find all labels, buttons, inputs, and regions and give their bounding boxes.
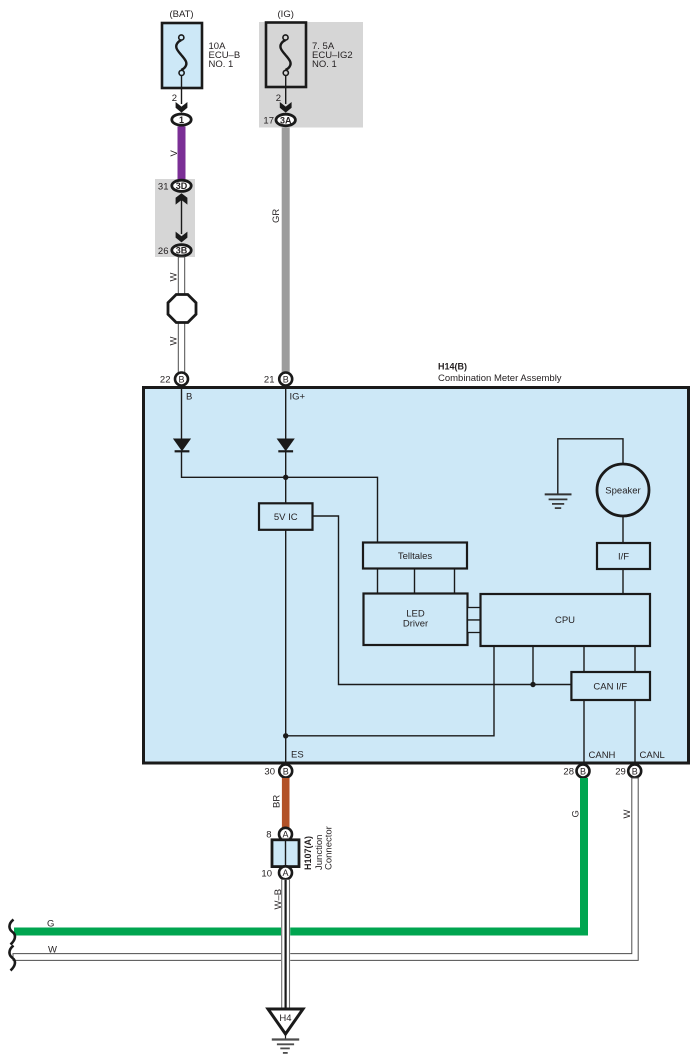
connector terminal 3D — [172, 180, 191, 191]
junction dot — [283, 475, 288, 480]
pin 30 terminal B — [279, 765, 292, 778]
wire between arrows — [181, 200, 183, 234]
svg-text:NO. 1: NO. 1 — [209, 59, 234, 70]
svg-text:CPU: CPU — [555, 615, 575, 626]
svg-text:I/F: I/F — [618, 552, 629, 563]
svg-text:B: B — [178, 374, 184, 384]
wire W (white) pin 29 to left edge — [13, 778, 638, 960]
CPU block — [481, 594, 651, 646]
pin 10 terminal A — [279, 866, 292, 879]
arrow down (3B) — [176, 232, 188, 243]
wire CANL — [634, 700, 636, 763]
wire CPU to junction — [532, 646, 534, 685]
svg-text:Connector: Connector — [324, 826, 335, 870]
fuse F1 (BAT) 10A ECU-B NO.1 — [162, 9, 240, 88]
wire CPU to ES — [286, 646, 494, 736]
svg-text:17: 17 — [263, 116, 274, 127]
svg-text:A: A — [282, 830, 288, 840]
splice octagon — [168, 295, 196, 323]
svg-text:CAN I/F: CAN I/F — [593, 682, 627, 693]
LED driver block — [364, 594, 468, 646]
svg-text:21: 21 — [264, 375, 275, 386]
svg-text:B: B — [580, 766, 586, 776]
continuation squiggle G — [9, 920, 15, 945]
svg-text:Combination Meter Assembly: Combination Meter Assembly — [438, 373, 562, 384]
wire V (violet) connector 1 to 3D — [178, 127, 186, 180]
wire CPU to CAN I/F right — [634, 646, 636, 672]
connector terminal 3A — [276, 114, 295, 126]
svg-text:Speaker: Speaker — [605, 485, 640, 496]
diode D2 — [277, 439, 295, 452]
svg-text:10: 10 — [261, 868, 272, 879]
connector terminal 1 — [172, 114, 191, 125]
svg-text:29: 29 — [615, 767, 626, 778]
pin 21 terminal B — [279, 373, 292, 386]
arrow up (3D) — [176, 193, 188, 204]
wire from D2 to 5V IC — [285, 451, 287, 503]
wire telltales-LED 2 — [414, 569, 416, 594]
wire ES from 5V IC to pin 30 — [285, 530, 287, 763]
pin 8 terminal A — [279, 828, 292, 841]
svg-text:W: W — [622, 810, 633, 819]
speaker ground — [545, 439, 623, 508]
svg-text:(IG): (IG) — [278, 9, 294, 20]
svg-text:G: G — [571, 810, 582, 817]
svg-text:3A: 3A — [280, 115, 292, 125]
svg-text:BR: BR — [272, 795, 283, 808]
svg-text:22: 22 — [160, 375, 171, 386]
wire fuse IG to connector 3A — [285, 75, 287, 104]
fuse F2 (IG) 7.5A ECU-IG2 NO.1 — [266, 9, 353, 87]
wire W (white) 3B to pin 22 — [178, 257, 184, 373]
arrow into connector 1 — [176, 102, 188, 113]
pin 29 terminal B — [628, 765, 641, 778]
wire W-B pin 10 to ground — [281, 880, 290, 1010]
svg-text:Driver: Driver — [403, 619, 428, 630]
CAN I/F block — [571, 672, 650, 700]
connector terminal 3B — [172, 245, 191, 256]
svg-text:5V IC: 5V IC — [274, 512, 298, 523]
svg-text:28: 28 — [563, 767, 574, 778]
svg-text:B: B — [283, 766, 289, 776]
junction dot ES — [283, 733, 288, 738]
wire from D1 to bus — [182, 451, 378, 542]
svg-text:CANL: CANL — [640, 750, 665, 761]
connector block gray background 3D/3B — [155, 179, 195, 257]
wire GR (gray) 3A to pin 21 — [282, 127, 290, 372]
svg-text:H107(A): H107(A) — [303, 836, 313, 870]
svg-text:IG+: IG+ — [290, 392, 306, 403]
svg-text:A: A — [282, 868, 288, 878]
wire B into box — [181, 387, 183, 439]
combination meter assembly box U1 — [144, 388, 689, 764]
svg-text:W–B: W–B — [273, 889, 284, 910]
wire IG+ into box — [285, 387, 287, 439]
svg-text:Telltales: Telltales — [398, 551, 433, 562]
ground H4 — [268, 1009, 303, 1053]
svg-text:1: 1 — [179, 115, 184, 125]
svg-text:26: 26 — [158, 246, 169, 257]
regulator 5V IC — [259, 503, 313, 530]
svg-text:3D: 3D — [176, 181, 188, 191]
svg-text:NO. 1: NO. 1 — [312, 59, 337, 70]
svg-text:H4: H4 — [279, 1013, 291, 1024]
wire CPU to CAN I/F left — [583, 646, 585, 672]
wire I/F to CPU — [622, 569, 624, 594]
svg-text:B: B — [283, 374, 289, 384]
svg-text:2: 2 — [172, 93, 177, 104]
pin 22 terminal B — [175, 373, 188, 386]
wire CANH — [583, 700, 585, 763]
svg-text:CANH: CANH — [589, 750, 616, 761]
wire telltales-LED 1 — [377, 569, 379, 594]
svg-text:B: B — [632, 766, 638, 776]
svg-text:3B: 3B — [176, 246, 188, 256]
svg-text:ES: ES — [291, 750, 304, 761]
bus links LED driver to CPU — [468, 608, 481, 633]
wire G (green) pin 28 to left edge — [14, 778, 588, 936]
speaker SP1 — [597, 464, 649, 516]
svg-text:31: 31 — [158, 181, 169, 192]
junction dot — [530, 682, 535, 687]
junction connector H107(A) — [272, 840, 299, 867]
svg-text:H14(B): H14(B) — [438, 362, 467, 372]
svg-text:W: W — [169, 273, 180, 282]
fuse block gray background (IG) — [259, 22, 363, 128]
diode D1 — [173, 439, 191, 452]
svg-text:V: V — [169, 150, 180, 157]
wire 5V IC to CAN I/F — [313, 516, 572, 685]
wire fuse BAT to connector 1 — [181, 75, 183, 104]
I/F block — [597, 543, 650, 569]
svg-text:GR: GR — [271, 209, 282, 223]
wire telltales-LED 3 — [454, 569, 456, 594]
pin 28 terminal B — [577, 765, 590, 778]
svg-text:W: W — [169, 337, 180, 346]
svg-text:W: W — [48, 945, 57, 956]
continuation squiggle W — [9, 946, 15, 971]
svg-text:B: B — [186, 392, 192, 403]
wire speaker to I/F — [622, 516, 624, 543]
svg-text:(BAT): (BAT) — [169, 9, 193, 20]
arrow into connector 3A — [280, 102, 292, 113]
telltales block — [363, 543, 467, 569]
svg-text:30: 30 — [264, 767, 275, 778]
wire BR pin30 to junction connector — [282, 778, 290, 828]
svg-text:G: G — [47, 919, 54, 930]
